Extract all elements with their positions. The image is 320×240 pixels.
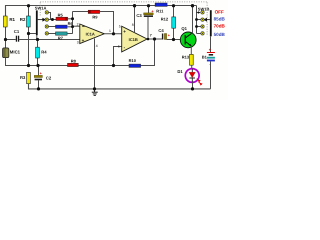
resistor R1 (3, 16, 15, 27)
mechanical link dotted line (40, 1, 207, 3)
LED light arrows (197, 79, 203, 86)
wire R2 column (28, 6, 30, 66)
switch SW1B contact 3 (201, 25, 204, 28)
wire top supply rail (6, 6, 197, 17)
wire Q1 emitter to R13 (190, 46, 192, 54)
wire IC1A output to IC1B input (104, 33, 121, 35)
node C1 tap (4, 38, 7, 41)
wire SW1B row3 stub (197, 26, 201, 28)
switch SW1A contact 4 (45, 32, 48, 35)
node C3 on rail (147, 4, 150, 7)
wire C4 to Q1 base node (167, 39, 185, 41)
svg-text:R3: R3 (20, 75, 26, 80)
svg-text:50dB: 50dB (214, 32, 226, 37)
node ground symbol rail (93, 87, 96, 90)
wire inverting bus vertical (72, 12, 74, 34)
svg-text:MIC1: MIC1 (10, 50, 21, 55)
svg-text:5: 5 (119, 24, 121, 28)
svg-text:3: 3 (77, 40, 79, 44)
svg-text:R4: R4 (41, 50, 47, 55)
wire bus to IC1A inverting input pin2 (73, 25, 80, 27)
capacitor C1 (14, 29, 20, 42)
node R12 on rail (172, 4, 175, 7)
svg-text:Q1: Q1 (181, 26, 187, 31)
node SW1B bus row3 (195, 25, 198, 28)
wire SW1A row1 to R5 line (48, 13, 50, 20)
capacitor C3 (136, 6, 154, 39)
wire R2 to pole bar (29, 33, 36, 35)
wire C2 top (38, 66, 40, 76)
wire IC1B pin6 feedback (114, 47, 122, 66)
battery B1 (202, 36, 215, 89)
wire mid line R8 to R10 (78, 65, 129, 67)
svg-text:1: 1 (109, 29, 111, 33)
svg-text:R2: R2 (20, 17, 26, 22)
wire R7 right to bus (67, 33, 72, 35)
wire bus up to feedback R9 (73, 11, 89, 13)
svg-text:4: 4 (96, 44, 98, 48)
wire SW1B row4 stub (197, 33, 201, 35)
wire R10 right to output riser (141, 39, 155, 65)
wire R6 right to bus (67, 26, 72, 28)
resistor R12 (161, 6, 176, 40)
wire R9 right to output riser (100, 12, 114, 34)
svg-text:R12: R12 (161, 16, 169, 21)
wire rail end down SW1B bus (196, 6, 198, 34)
svg-text:R10: R10 (129, 58, 137, 63)
resistor R8 (68, 58, 79, 66)
node R5 feedback join (71, 17, 74, 20)
svg-text:R11: R11 (156, 8, 164, 13)
wire IC1A pin4 down to ground rail (94, 39, 96, 89)
wire D1 to ground rail (192, 82, 194, 89)
svg-text:70dB: 70dB (214, 24, 226, 29)
node rail SW1B drop (191, 4, 194, 7)
svg-text:85dB: 85dB (214, 17, 226, 22)
wire SW1A row3 to R6 (48, 26, 55, 28)
wire SW1A row2 to R5 (48, 19, 56, 21)
svg-text:+: + (123, 29, 126, 34)
node SW1B bus row2 (195, 18, 198, 21)
switch SW1B contact 4 (201, 32, 204, 35)
svg-text:C1: C1 (14, 29, 20, 34)
svg-text:IC1B: IC1B (129, 37, 138, 42)
svg-text:IC1A: IC1A (86, 31, 95, 36)
svg-text:C2: C2 (46, 75, 52, 80)
node IC1B output (153, 37, 156, 40)
svg-text:7: 7 (150, 34, 152, 38)
switch SW1A contact 1 (45, 11, 48, 14)
wire C1 to switch pole node (19, 39, 37, 41)
svg-text:2: 2 (77, 22, 79, 26)
svg-text:R9: R9 (92, 14, 98, 19)
resistor R10 (129, 58, 141, 67)
node SW1A row1 join (51, 18, 54, 21)
wire SW1B row2 stub (197, 19, 201, 21)
switch SW1A contact 2 (45, 18, 48, 21)
svg-text:R1: R1 (9, 17, 15, 22)
svg-text:C4: C4 (158, 28, 164, 33)
switch SW1B (198, 2, 212, 36)
svg-text:B1: B1 (202, 54, 208, 59)
node C3 output join (147, 38, 150, 41)
resistor R13 (182, 54, 193, 65)
wire mic bottom to ground line (6, 58, 68, 66)
switch SW1A (35, 2, 47, 35)
resistor R7 (56, 32, 68, 40)
resistor R6 (56, 21, 74, 28)
capacitor C2 (34, 72, 52, 81)
wire C2 bottom (38, 80, 40, 89)
wire switch pole bar down to node (36, 35, 38, 40)
resistor R2 (20, 16, 30, 27)
ground symbol (92, 89, 98, 96)
wire R4 bottom (37, 58, 39, 66)
op-amp IC1B (118, 23, 152, 52)
svg-text:R8: R8 (71, 58, 77, 63)
switch SW1A contact 3 (45, 25, 48, 28)
node C1 pole R4 junction (36, 38, 39, 41)
node D1 ground rail (191, 87, 194, 90)
node ground line pin6 (112, 64, 115, 67)
resistor R11 (155, 3, 167, 13)
switch SW1B contact 2 (201, 18, 204, 21)
wire node down to R4 (37, 40, 39, 48)
op-amp IC1A (77, 22, 111, 48)
wire SW1B row1 stub (197, 12, 199, 14)
svg-text:SW1A: SW1A (35, 6, 47, 11)
resistor R4 (36, 47, 48, 58)
node Q1 collector on rail (191, 4, 194, 7)
wire left column mic branch (5, 27, 7, 48)
wire pole node to IC1A plus input (38, 39, 80, 41)
wire IC1B pin8 to rail (134, 6, 136, 33)
resistor R3 (20, 72, 30, 83)
wire Q1 collector to rail (192, 6, 194, 34)
svg-text:6: 6 (118, 44, 120, 48)
svg-text:R7: R7 (58, 35, 64, 40)
node ground line R4 C2 (36, 64, 39, 67)
node bus pin2 (71, 25, 74, 28)
node C2 ground rail (37, 87, 40, 90)
wire R5 right to inverting bus (68, 18, 73, 20)
switch SW1B contact 1 (201, 11, 204, 14)
microphone MIC1 (3, 48, 21, 58)
resistor R5 (56, 13, 68, 21)
wire R13 to LED D1 (191, 65, 193, 68)
wire R3 bottom to ground rail (29, 84, 211, 89)
svg-text:+: + (82, 38, 85, 43)
node Q1 base R12 (172, 38, 175, 41)
node R2 top on rail (27, 4, 30, 7)
svg-text:8: 8 (132, 23, 134, 27)
node IC1A output (112, 32, 115, 35)
node rail pin8 (133, 4, 136, 7)
node pin8 on rail (133, 4, 136, 7)
svg-text:D1: D1 (177, 69, 183, 74)
resistor R9 (88, 10, 99, 19)
capacitor C4 (158, 28, 170, 40)
node R2 pole link (27, 32, 30, 35)
transistor Q1 (180, 26, 196, 48)
svg-text:R5: R5 (58, 13, 64, 18)
wire C1 line from mic node (6, 39, 16, 41)
svg-text:R13: R13 (182, 55, 190, 60)
LED D1 (177, 69, 199, 83)
svg-text:C3: C3 (136, 13, 142, 18)
wire SW1A row4 to R7 (48, 33, 55, 35)
node ground line R3 (27, 64, 30, 67)
svg-text:OFF: OFF (215, 9, 224, 14)
wire IC1B output (147, 38, 162, 40)
